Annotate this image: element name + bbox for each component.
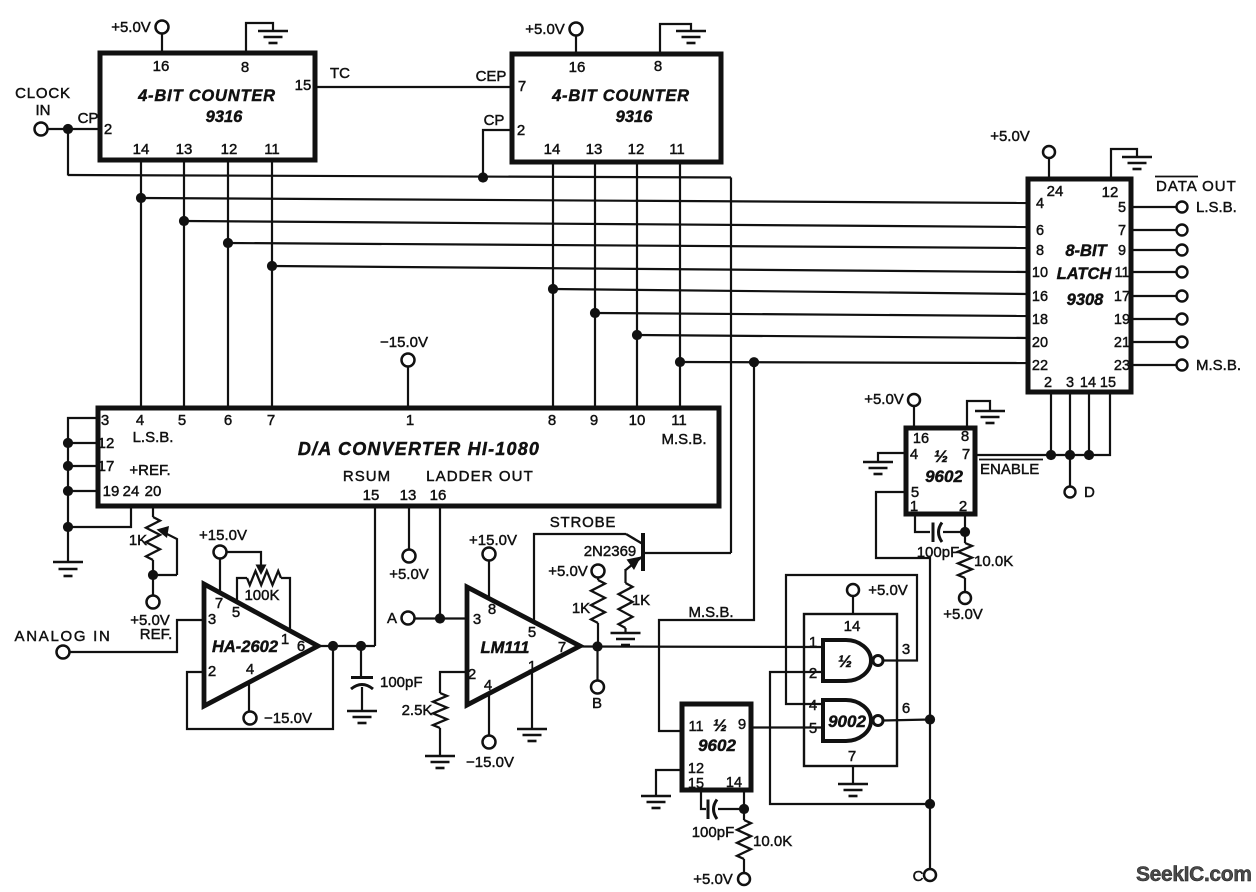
one-shot 9602 U5 box <box>906 428 975 514</box>
svg-text:C: C <box>913 868 924 885</box>
wire latch output 5 <box>1131 318 1176 320</box>
svg-text:M.S.B.: M.S.B. <box>1196 357 1241 374</box>
wire pot to +5V ref <box>152 560 154 596</box>
svg-text:8: 8 <box>548 412 556 429</box>
node B terminal <box>591 681 604 694</box>
wire 10.0K U5 to +5V <box>964 578 966 592</box>
4-bit counter 9316 U2 box <box>512 54 721 162</box>
junction G2 out C <box>925 714 935 724</box>
svg-text:9316: 9316 <box>616 108 654 126</box>
wire U7 output <box>318 645 375 647</box>
svg-text:1K: 1K <box>632 592 650 609</box>
wire Q1 base <box>643 552 731 554</box>
svg-text:2: 2 <box>1044 375 1052 391</box>
wire clock input <box>48 128 101 130</box>
svg-text:CP: CP <box>484 112 505 129</box>
wire U4 pin12 <box>68 442 98 444</box>
latch output terminal 6 <box>1177 337 1188 348</box>
wire cap to pin14 node <box>718 808 744 810</box>
wire U6 pin15 to cap <box>701 790 706 809</box>
junction bus bit0 <box>136 193 146 203</box>
junction bus bit5 <box>590 308 600 318</box>
svg-text:1K: 1K <box>129 532 147 549</box>
-15.0V terminal U7 pin4 <box>244 712 257 725</box>
svg-text:1: 1 <box>910 498 918 515</box>
junction bus bit3 <box>267 261 277 271</box>
svg-text:13: 13 <box>586 141 603 158</box>
svg-text:15: 15 <box>1100 375 1116 391</box>
svg-text:13: 13 <box>400 487 417 504</box>
svg-text:4: 4 <box>910 446 918 463</box>
100K wiper arrow <box>227 552 267 575</box>
svg-text:9602: 9602 <box>698 736 736 755</box>
wire U7 pin4 <box>248 682 250 711</box>
svg-text:10.0K: 10.0K <box>974 553 1013 570</box>
svg-text:9308: 9308 <box>1067 291 1105 309</box>
svg-text:+15.0V: +15.0V <box>469 532 517 549</box>
svg-text:8: 8 <box>961 428 969 445</box>
8-bit latch 9308 U3 box <box>1028 179 1131 392</box>
wire A to LM111 pin3 <box>415 617 468 619</box>
svg-text:LM111: LM111 <box>481 639 530 657</box>
svg-text:9: 9 <box>738 716 746 733</box>
wire LADDER OUT down <box>439 506 441 619</box>
+15.0V terminal U8 <box>483 548 496 599</box>
junction C return <box>925 799 935 809</box>
svg-text:15: 15 <box>295 77 312 94</box>
svg-text:10: 10 <box>629 412 646 429</box>
node C terminal <box>924 869 936 881</box>
resistor 1K pullup <box>591 580 605 623</box>
svg-text:3: 3 <box>473 611 481 628</box>
D/A converter HI-1080 U4 box <box>98 408 719 506</box>
wire U1 pin11 to DAC pin7 <box>271 160 273 408</box>
svg-text:7: 7 <box>962 446 970 463</box>
9002 package outline <box>804 614 897 766</box>
CLOCK IN terminal <box>35 123 48 136</box>
svg-text:24: 24 <box>123 483 140 500</box>
+5.0V terminal gates <box>847 584 859 614</box>
wire U4 pin19 <box>68 490 98 492</box>
junction U5 RC <box>960 527 970 537</box>
wire latch output 2 <box>1131 249 1176 251</box>
svg-text:6: 6 <box>1036 223 1044 239</box>
junction pin24 rail <box>63 522 73 532</box>
U2 name <box>551 87 690 126</box>
wire latch output 7 <box>1131 364 1176 366</box>
svg-text:7: 7 <box>1118 223 1126 239</box>
wire 100K left lead to pin5 <box>237 578 247 602</box>
+5.0V terminal 1K pullup <box>592 565 605 581</box>
svg-text:SeekIC.com: SeekIC.com <box>1136 863 1252 886</box>
svg-text:6: 6 <box>297 638 305 655</box>
pot wiper arrow <box>157 526 178 575</box>
junction CP U2 <box>478 172 488 182</box>
svg-text:13: 13 <box>176 141 193 158</box>
svg-text:16: 16 <box>569 59 586 76</box>
latch output terminal 5 <box>1177 314 1188 325</box>
svg-text:5: 5 <box>1118 200 1126 216</box>
svg-text:STROBE: STROBE <box>550 514 616 531</box>
-15.0V terminal for U4 pin 1 <box>402 354 415 409</box>
svg-text:100pF: 100pF <box>917 544 960 561</box>
svg-text:2: 2 <box>517 122 525 139</box>
svg-text:4: 4 <box>136 412 144 429</box>
svg-text:5: 5 <box>178 412 186 429</box>
wire latch output 1 <box>1131 229 1176 231</box>
wire latch output 3 <box>1131 271 1176 273</box>
wire U6 RC stem <box>743 809 745 820</box>
svg-text:3: 3 <box>902 641 910 658</box>
+5.0V terminal DAC pin13 <box>403 550 416 563</box>
junction U6 RC <box>739 804 749 814</box>
svg-text:+15.0V: +15.0V <box>199 527 247 544</box>
svg-text:16: 16 <box>430 487 447 504</box>
svg-text:+5.0V: +5.0V <box>864 391 904 408</box>
+5.0V REF label <box>130 612 172 643</box>
svg-text:17: 17 <box>98 458 115 475</box>
transistor 2N2369 Q1 <box>625 533 643 571</box>
wire U2 pin14 to DAC pin8 <box>552 162 554 408</box>
svg-text:5: 5 <box>232 604 240 621</box>
svg-text:1: 1 <box>406 412 414 429</box>
svg-text:2: 2 <box>208 663 216 680</box>
U1 ground pin 8 <box>246 23 288 53</box>
svg-text:8: 8 <box>1036 243 1044 259</box>
svg-text:½: ½ <box>934 447 948 466</box>
svg-text:3: 3 <box>208 611 216 628</box>
wire U3 pin2 down <box>1050 392 1052 455</box>
svg-text:+5.0V: +5.0V <box>693 871 733 888</box>
svg-text:−15.0V: −15.0V <box>264 710 312 727</box>
+5.0V REF terminal <box>147 596 160 609</box>
svg-text:4: 4 <box>809 697 817 714</box>
svg-text:CLOCK: CLOCK <box>15 85 71 102</box>
wire MSB tap <box>659 362 754 731</box>
ground Q1 1K <box>611 628 641 645</box>
svg-text:7: 7 <box>267 412 275 429</box>
junction bus bit6 <box>632 330 642 340</box>
svg-text:15: 15 <box>363 487 380 504</box>
wire analog in to op-amp pin3 <box>70 620 205 652</box>
U1 +5.0V power terminal <box>156 21 169 54</box>
node D terminal <box>1065 487 1076 498</box>
svg-text:2: 2 <box>104 121 112 138</box>
wire data bus bit3 <box>272 266 1028 272</box>
latch output terminal 2 <box>1177 245 1188 256</box>
wire U4 pin24 down <box>68 506 131 527</box>
svg-text:100K: 100K <box>244 587 279 604</box>
ground C1 <box>347 687 377 723</box>
svg-text:14: 14 <box>544 141 561 158</box>
U5 ground pin8 <box>967 401 1005 428</box>
svg-text:½: ½ <box>713 716 727 735</box>
svg-text:100pF: 100pF <box>692 824 735 841</box>
svg-text:8: 8 <box>488 601 496 618</box>
+5.0V terminal U5 RC <box>959 592 971 604</box>
svg-text:½: ½ <box>838 652 852 671</box>
wire U4 pin17 <box>68 465 98 467</box>
NAND gate G2 <box>823 700 883 741</box>
wire data bus bit1 <box>184 221 1028 227</box>
svg-text:12: 12 <box>628 141 645 158</box>
wire 100K right lead to pin1 <box>281 578 290 631</box>
capacitor 100pF C3 <box>708 800 717 820</box>
svg-text:5: 5 <box>528 624 536 641</box>
svg-text:12: 12 <box>1102 184 1119 201</box>
junction bus bit7 <box>675 357 685 367</box>
capacitor 100pF C1 <box>351 678 373 690</box>
wire clock bus horizontal <box>68 175 731 178</box>
junction enable pin2 <box>1046 450 1056 460</box>
DATA OUT overline <box>1155 176 1198 178</box>
svg-text:14: 14 <box>133 141 150 158</box>
+15.0V terminal U7 <box>214 546 227 593</box>
4-bit counter 9316 U1 box <box>100 53 315 160</box>
svg-text:17: 17 <box>1114 289 1130 305</box>
svg-text:20: 20 <box>145 483 162 500</box>
wire latch output 4 <box>1131 295 1176 297</box>
wire ENABLE <box>975 392 1110 455</box>
resistor 1K Q1 emitter <box>619 583 633 628</box>
wire 10.0K to +5V <box>743 859 745 873</box>
U3 name <box>1057 242 1113 309</box>
wire cap stem <box>360 646 362 676</box>
svg-text:DATA OUT: DATA OUT <box>1156 178 1237 195</box>
svg-text:100pF: 100pF <box>380 674 423 691</box>
U5 +5.0V terminal <box>908 394 920 428</box>
wire U6 pin12 ground <box>656 770 682 795</box>
svg-text:B: B <box>592 695 602 712</box>
svg-text:3: 3 <box>1066 375 1074 391</box>
svg-text:2N2369: 2N2369 <box>584 543 637 560</box>
wire G1 output cross-couple to G2 pin4 <box>786 575 917 704</box>
svg-text:18: 18 <box>1032 312 1048 328</box>
svg-text:LADDER OUT: LADDER OUT <box>426 468 534 485</box>
wire latch output 6 <box>1131 341 1176 343</box>
junction enable pin14 <box>1084 450 1094 460</box>
U2 +5.0V power terminal <box>570 23 583 55</box>
svg-text:9316: 9316 <box>206 108 244 126</box>
capacitor 100pF C2 <box>933 523 942 543</box>
wire U5 pin2 down <box>964 514 966 532</box>
wire output to RSUM riser <box>374 506 376 646</box>
ground U6 pin12 <box>641 796 671 808</box>
wire U1 pin13 to DAC pin5 <box>183 160 185 408</box>
svg-text:7: 7 <box>848 748 856 765</box>
node A terminal <box>402 612 415 625</box>
comparator LM111 U8 triangle <box>467 587 580 705</box>
wire U8 pin1 ground stem <box>531 672 533 728</box>
svg-text:9: 9 <box>1118 243 1126 259</box>
ENABLE overline <box>979 459 1043 461</box>
wire U6 pin14 down <box>743 790 745 809</box>
svg-text:−15.0V: −15.0V <box>466 754 514 771</box>
svg-text:9602: 9602 <box>925 467 963 486</box>
wire U2 pin12 to DAC pin10 <box>636 162 638 408</box>
junction U7 out A <box>328 641 338 651</box>
U3 +5.0V terminal <box>1043 146 1055 179</box>
svg-text:2: 2 <box>468 666 476 683</box>
wire U6 pin9 to G2 pin5 <box>751 726 823 728</box>
wire U4 pin20 down <box>152 506 154 517</box>
svg-text:19: 19 <box>103 483 120 500</box>
wire U8 output to gate1 pin1 <box>580 645 823 648</box>
wire U4 pin3 to left rail <box>68 418 98 527</box>
svg-text:10.0K: 10.0K <box>753 833 792 850</box>
wire data bus bit4 <box>553 289 1028 294</box>
svg-text:+5.0V: +5.0V <box>525 21 565 38</box>
svg-text:+5.0V: +5.0V <box>111 19 151 36</box>
svg-text:11: 11 <box>264 141 280 158</box>
svg-text:M.S.B.: M.S.B. <box>661 431 706 448</box>
latch output terminal 4 <box>1177 291 1188 302</box>
svg-text:2: 2 <box>959 498 967 515</box>
svg-text:REF.: REF. <box>140 626 173 643</box>
svg-text:A: A <box>387 610 397 627</box>
wire U3 pin3 down to D <box>1069 392 1071 486</box>
svg-text:6: 6 <box>224 412 232 429</box>
wire G2 output <box>883 720 930 721</box>
latch output terminal 3 <box>1177 267 1188 278</box>
latch output terminal 0 <box>1177 202 1188 213</box>
resistor 2.5K <box>433 693 447 728</box>
svg-text:CEP: CEP <box>476 68 507 85</box>
op-amp HA-2602 U7 triangle <box>204 584 318 706</box>
svg-text:−15.0V: −15.0V <box>380 334 428 351</box>
wire U5 RC stem <box>964 532 966 543</box>
svg-text:L.S.B.: L.S.B. <box>1196 199 1237 216</box>
svg-text:16: 16 <box>913 431 929 447</box>
svg-text:12: 12 <box>688 761 704 777</box>
junction clock <box>63 124 73 134</box>
one-shot 9602 U6 box <box>682 704 751 790</box>
resistor 10.0K U5 <box>958 543 972 578</box>
junction U8 output <box>592 641 602 651</box>
svg-text:1: 1 <box>281 631 289 648</box>
svg-text:3: 3 <box>101 412 109 429</box>
ANALOG IN terminal <box>57 646 70 659</box>
svg-text:2.5K: 2.5K <box>402 702 433 719</box>
svg-text:CP: CP <box>78 110 99 127</box>
wire strobe <box>534 534 626 622</box>
U5 ground pin4 <box>863 453 906 474</box>
svg-text:LATCH: LATCH <box>1057 265 1113 283</box>
-15.0V terminal U8 pin4 <box>483 736 496 749</box>
resistor 10.0K U6 <box>737 820 751 859</box>
latch output terminal 7 <box>1177 360 1188 371</box>
svg-text:9002: 9002 <box>828 712 866 731</box>
svg-text:11: 11 <box>669 141 685 158</box>
svg-text:11: 11 <box>671 412 687 429</box>
svg-text:8-BIT: 8-BIT <box>1065 242 1108 260</box>
wire latch output 0 <box>1131 206 1176 208</box>
ground 2.5K <box>425 728 455 768</box>
wire U2 pin13 to DAC pin9 <box>594 162 596 408</box>
wire U1 pin14 to DAC pin4 <box>140 160 142 408</box>
wire cap to pin2 node <box>943 531 965 533</box>
NAND gate G1 <box>823 640 883 681</box>
+5.0V terminal U6 RC <box>738 873 750 885</box>
wire Q1 emitter to 1K <box>624 569 626 583</box>
junction bus bit1 <box>179 216 189 226</box>
potentiometer 1K <box>146 517 160 560</box>
wire U5 pin1 to cap <box>915 514 930 532</box>
svg-text:10: 10 <box>1032 265 1048 281</box>
svg-text:22: 22 <box>1032 358 1048 374</box>
svg-text:M.S.B.: M.S.B. <box>688 604 733 621</box>
svg-text:6: 6 <box>902 700 910 717</box>
wire wiper to bottom <box>153 574 177 576</box>
wire U8 pin4 <box>488 695 490 735</box>
U2 ground pin 8 <box>660 24 706 54</box>
U3 ground pin12 <box>1111 149 1152 179</box>
svg-text:14: 14 <box>844 618 861 635</box>
wire data bus bit2 <box>228 243 1028 248</box>
svg-text:11: 11 <box>688 719 703 735</box>
wire clock bus down to transistor base <box>730 178 732 554</box>
junction bus bit2 <box>223 238 233 248</box>
svg-text:7: 7 <box>558 639 566 656</box>
junction pin12 rail <box>63 438 73 448</box>
svg-text:1: 1 <box>809 634 817 651</box>
junction pin17 rail <box>63 461 73 471</box>
wire RSUM label riser none <box>408 506 410 549</box>
junction bus bit4 <box>548 284 558 294</box>
wire 1K to out node <box>597 623 599 646</box>
svg-text:12: 12 <box>98 435 115 452</box>
ground gates pin7 <box>838 766 868 796</box>
ground U8 pin1 <box>517 729 547 741</box>
wire G1 pin2 from C node <box>770 672 930 804</box>
svg-text:4: 4 <box>246 661 254 678</box>
svg-text:24: 24 <box>1047 183 1064 200</box>
svg-text:16: 16 <box>153 58 170 75</box>
svg-text:4-BIT COUNTER: 4-BIT COUNTER <box>137 87 276 105</box>
svg-text:+5.0V: +5.0V <box>990 128 1030 145</box>
wire U2 pin11 to DAC pin11 <box>679 162 681 408</box>
ground left rail <box>53 527 83 576</box>
wire U8 pin2 <box>440 672 467 693</box>
pot 100K <box>247 571 281 585</box>
svg-text:HA-2602: HA-2602 <box>212 638 278 656</box>
svg-text:14: 14 <box>1080 375 1096 391</box>
svg-text:IN: IN <box>36 102 51 119</box>
wire feedback loop <box>187 646 333 729</box>
wire clock vertical <box>67 129 69 176</box>
svg-text:11: 11 <box>1114 265 1129 281</box>
svg-text:9: 9 <box>590 412 598 429</box>
junction U7 out B <box>356 641 366 651</box>
svg-text:16: 16 <box>1032 289 1048 305</box>
svg-text:4: 4 <box>484 677 492 694</box>
CLOCK IN label <box>15 85 71 119</box>
svg-text:+5.0V: +5.0V <box>943 606 983 623</box>
wire CP U2 branch <box>483 130 512 177</box>
svg-text:+REF.: +REF. <box>129 462 170 479</box>
svg-text:RSUM: RSUM <box>343 468 391 485</box>
svg-text:23: 23 <box>1114 358 1130 374</box>
svg-text:+5.0V: +5.0V <box>548 563 588 580</box>
svg-text:12: 12 <box>221 141 238 158</box>
svg-text:ENABLE: ENABLE <box>980 461 1039 478</box>
svg-text:+5.0V: +5.0V <box>868 582 908 599</box>
junction A <box>435 613 445 623</box>
svg-text:21: 21 <box>1114 335 1130 351</box>
wire U3 pin14 down <box>1088 392 1090 455</box>
wire U1 pin12 to DAC pin6 <box>227 160 229 408</box>
junction MSB tap <box>749 357 759 367</box>
